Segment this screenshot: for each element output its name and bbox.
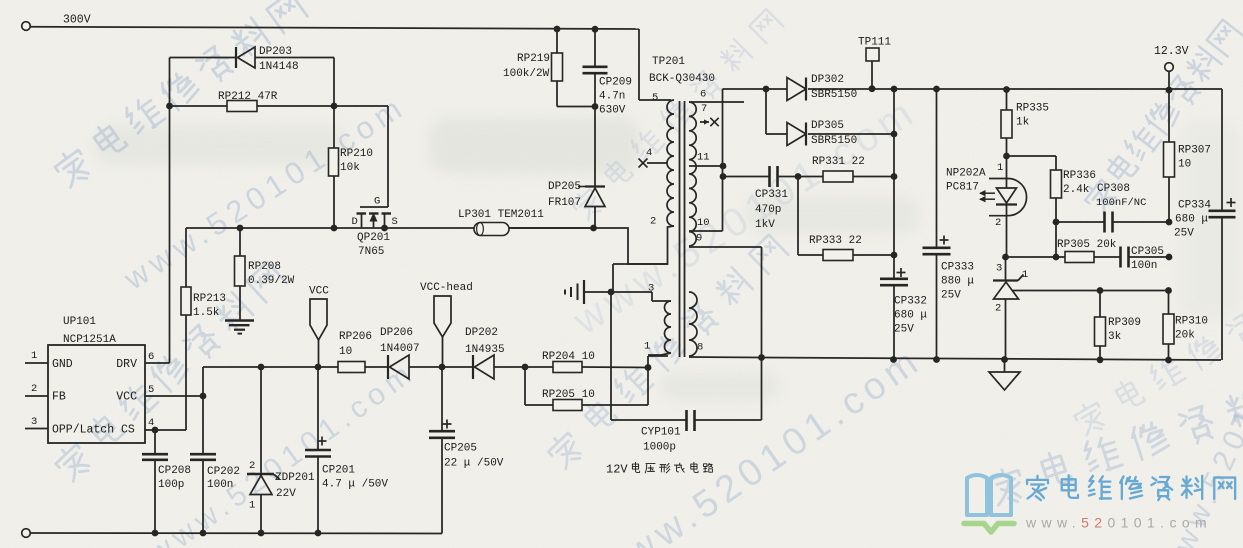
svg-text:VCC-head: VCC-head [420, 282, 473, 294]
svg-text:22V: 22V [276, 488, 296, 500]
svg-text:2: 2 [995, 303, 1001, 315]
svg-text:RP305 20k: RP305 20k [1057, 239, 1117, 251]
svg-text:25V: 25V [1174, 228, 1194, 240]
svg-text:DP302: DP302 [811, 74, 844, 86]
svg-text:2.4k: 2.4k [1063, 184, 1090, 196]
svg-text:FB: FB [52, 390, 66, 403]
svg-text:D: D [352, 216, 358, 228]
svg-text:DP206: DP206 [380, 327, 413, 339]
svg-text:GND: GND [52, 358, 73, 371]
svg-text:1: 1 [644, 341, 650, 353]
svg-text:6: 6 [148, 351, 154, 363]
svg-text:RP205 10: RP205 10 [542, 389, 595, 401]
svg-text:10: 10 [339, 346, 352, 358]
svg-text:CP209: CP209 [599, 77, 632, 89]
svg-text:10k: 10k [340, 162, 360, 174]
svg-text:9: 9 [696, 233, 702, 245]
svg-text:880 μ: 880 μ [941, 276, 974, 288]
svg-text:12.3V: 12.3V [1154, 45, 1189, 58]
svg-text:CP305: CP305 [1131, 246, 1164, 258]
svg-text:CP334: CP334 [1178, 200, 1211, 212]
svg-text:4.7n: 4.7n [599, 91, 625, 103]
svg-text:0.39/2W: 0.39/2W [248, 275, 295, 287]
svg-text:3: 3 [996, 263, 1002, 275]
svg-text:RP206: RP206 [339, 331, 372, 343]
svg-text:CP208: CP208 [158, 465, 191, 477]
svg-text:VCC: VCC [309, 286, 329, 298]
svg-text:1: 1 [1022, 269, 1028, 281]
svg-text:VCC: VCC [116, 390, 137, 403]
svg-text:SBR5150: SBR5150 [811, 135, 857, 147]
svg-text:100n: 100n [1131, 260, 1157, 272]
svg-text:NP202A: NP202A [946, 168, 986, 180]
svg-text:2: 2 [995, 217, 1001, 229]
svg-text:4: 4 [148, 417, 154, 429]
svg-text:3: 3 [648, 283, 654, 295]
svg-text:BCK-Q30430: BCK-Q30430 [649, 73, 715, 85]
svg-text:6: 6 [700, 89, 706, 101]
svg-text:2: 2 [650, 216, 656, 228]
svg-text:RP204 10: RP204 10 [542, 351, 595, 363]
svg-text:CP332: CP332 [894, 296, 927, 308]
svg-text:11: 11 [697, 152, 710, 164]
svg-text:RP307: RP307 [1178, 145, 1211, 157]
svg-text:7N65: 7N65 [358, 246, 384, 258]
svg-text:DP202: DP202 [465, 327, 498, 339]
svg-text:25V: 25V [894, 324, 914, 336]
svg-text:5: 5 [148, 384, 154, 396]
svg-text:DP203: DP203 [259, 46, 292, 58]
svg-text:PC817: PC817 [946, 182, 979, 194]
svg-text:RP333 22: RP333 22 [809, 235, 862, 247]
svg-text:1N4935: 1N4935 [465, 344, 505, 356]
svg-text:RP336: RP336 [1063, 170, 1096, 182]
svg-text:DRV: DRV [116, 358, 137, 371]
svg-text:FR107: FR107 [548, 197, 581, 209]
svg-text:LP301 TEM2011: LP301 TEM2011 [458, 209, 544, 221]
svg-text:680 μ: 680 μ [894, 310, 927, 322]
svg-text:G: G [374, 196, 380, 208]
svg-text:RP210: RP210 [340, 148, 373, 160]
svg-text:SBR5150: SBR5150 [811, 89, 857, 101]
svg-text:NCP1251A: NCP1251A [63, 334, 116, 346]
svg-text:RP212 47R: RP212 47R [218, 91, 278, 103]
svg-text:OPP/Latch CS: OPP/Latch CS [52, 423, 135, 436]
svg-text:ZDP201: ZDP201 [275, 472, 315, 484]
svg-text:100nF/NC: 100nF/NC [1096, 197, 1146, 209]
svg-text:7: 7 [701, 103, 707, 115]
svg-text:4: 4 [646, 147, 652, 159]
svg-text:CP205: CP205 [444, 443, 477, 455]
svg-text:CYP101: CYP101 [641, 427, 681, 439]
svg-text:470p: 470p [755, 204, 781, 216]
svg-text:100n: 100n [207, 479, 233, 491]
svg-text:2: 2 [249, 460, 255, 472]
svg-text:3k: 3k [1108, 331, 1122, 343]
svg-text:1: 1 [31, 350, 37, 362]
svg-text:RP331 22: RP331 22 [812, 156, 865, 168]
svg-text:5: 5 [652, 92, 658, 104]
svg-text:QP201: QP201 [357, 232, 390, 244]
svg-text:CP331: CP331 [755, 189, 788, 201]
svg-text:100p: 100p [158, 479, 184, 491]
svg-text:1N4007: 1N4007 [380, 343, 420, 355]
svg-text:1: 1 [997, 162, 1003, 174]
svg-text:RP335: RP335 [1016, 103, 1049, 115]
svg-text:2: 2 [31, 383, 37, 395]
svg-text:1kV: 1kV [755, 219, 775, 231]
svg-text:CP201: CP201 [322, 465, 355, 477]
svg-text:RP208: RP208 [248, 261, 281, 273]
svg-text:TP111: TP111 [858, 37, 891, 49]
svg-text:3: 3 [31, 416, 37, 428]
svg-text:www.520101.com: www.520101.com [1025, 515, 1212, 531]
svg-text:UP101: UP101 [63, 316, 96, 328]
svg-text:1k: 1k [1016, 117, 1030, 129]
svg-text:CP308: CP308 [1097, 183, 1130, 195]
svg-text:630V: 630V [599, 105, 626, 117]
svg-text:1000p: 1000p [643, 442, 676, 454]
svg-text:RP310: RP310 [1175, 316, 1208, 328]
svg-text:10: 10 [697, 217, 710, 229]
svg-text:4.7 μ /50V: 4.7 μ /50V [322, 479, 388, 491]
svg-text:100k/2W: 100k/2W [503, 68, 550, 80]
svg-text:10: 10 [1178, 159, 1191, 171]
svg-text:TP201: TP201 [652, 56, 685, 68]
svg-text:1: 1 [249, 500, 255, 512]
svg-text:1.5k: 1.5k [193, 307, 220, 319]
svg-text:25V: 25V [941, 290, 961, 302]
svg-text:RP219: RP219 [517, 53, 550, 65]
svg-text:RP309: RP309 [1108, 317, 1141, 329]
svg-text:CP202: CP202 [207, 466, 240, 478]
svg-text:8: 8 [697, 342, 703, 354]
svg-text:DP205: DP205 [548, 181, 581, 193]
svg-text:20k: 20k [1175, 330, 1195, 342]
svg-text:CP333: CP333 [941, 262, 974, 274]
svg-text:680 μ: 680 μ [1175, 214, 1208, 226]
svg-text:300V: 300V [63, 13, 91, 26]
svg-text:DP305: DP305 [811, 120, 844, 132]
svg-text:1N4148: 1N4148 [259, 61, 299, 73]
svg-text:RP213: RP213 [193, 293, 226, 305]
svg-text:12V: 12V [606, 463, 628, 477]
svg-text:22 μ /50V: 22 μ /50V [444, 458, 504, 470]
svg-text:S: S [392, 216, 398, 228]
